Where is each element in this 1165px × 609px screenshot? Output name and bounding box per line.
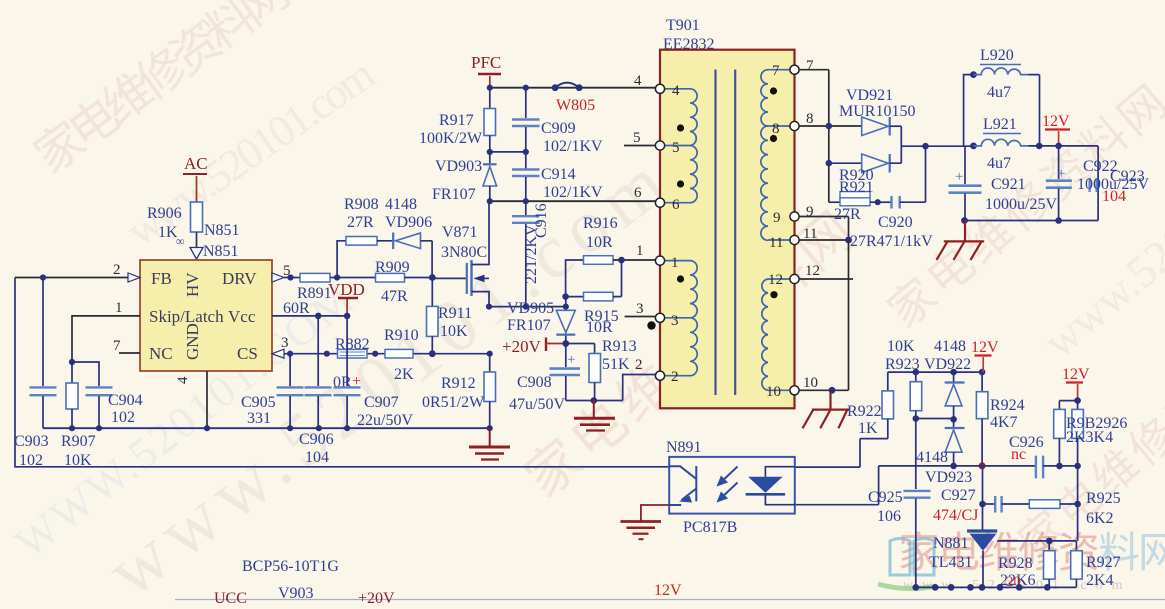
svg-text:11: 11: [769, 235, 783, 251]
svg-text:2: 2: [635, 357, 643, 373]
svg-text:C907: C907: [364, 394, 399, 411]
svg-text:27R: 27R: [347, 214, 374, 231]
wire TL431 ref: [997, 538, 1076, 545]
capacitor C920: [878, 146, 926, 231]
wire 12V rail to feedback: [888, 369, 986, 376]
ground secondary C921: [937, 221, 985, 260]
svg-text:6K2: 6K2: [1086, 510, 1114, 527]
diode VD905: [507, 297, 575, 344]
svg-text:4u7: 4u7: [987, 84, 1011, 101]
resistor R911: [427, 278, 473, 353]
svg-text:3N80C: 3N80C: [441, 244, 487, 261]
pin 9: [773, 204, 814, 226]
svg-text:N851: N851: [204, 222, 240, 239]
svg-text:2K: 2K: [394, 366, 414, 383]
wire C908 R913 to pin 2: [566, 375, 656, 404]
pin 5 DRV: [272, 263, 300, 282]
pin 8: [772, 111, 814, 137]
svg-text:NC: NC: [149, 344, 173, 363]
diode VD921 MUR10150 upper: [839, 87, 915, 136]
svg-text:Vcc: Vcc: [228, 307, 256, 326]
pin 4: [634, 73, 680, 99]
winding secondary pins 7-8: [761, 70, 790, 126]
svg-text:60R: 60R: [283, 300, 310, 317]
svg-text:+: +: [352, 373, 361, 390]
svg-text:6: 6: [672, 197, 680, 213]
svg-text:10K: 10K: [64, 452, 92, 469]
pin 11: [769, 226, 817, 251]
pin 7 NC: [113, 338, 140, 354]
diode opto LED: [746, 467, 795, 505]
svg-text:C903: C903: [14, 433, 49, 450]
resistor R912: [422, 354, 496, 429]
winding primary pins 3-2: [665, 318, 698, 376]
capacitor C909: [512, 88, 603, 155]
svg-text:3: 3: [671, 313, 679, 329]
svg-text:UCC: UCC: [214, 590, 247, 607]
svg-text:R916: R916: [583, 215, 618, 232]
svg-text:104: 104: [305, 449, 329, 466]
diode VD903: [432, 152, 497, 203]
resistor R926: [1066, 401, 1127, 466]
resistor R922: [795, 372, 894, 467]
svg-text:DRV: DRV: [222, 269, 257, 288]
resistor R891: [283, 273, 337, 317]
svg-text:HV: HV: [183, 272, 202, 297]
pin 10: [766, 375, 818, 400]
svg-text:C909: C909: [541, 120, 576, 137]
svg-text:106: 106: [877, 508, 901, 525]
diode VD921 lower: [829, 126, 974, 172]
svg-text:5: 5: [672, 140, 680, 156]
wire bottom stage rail: [175, 599, 1165, 601]
resistor R925: [1029, 490, 1120, 527]
svg-text:+20V: +20V: [358, 590, 395, 607]
svg-text:221/2KV: 221/2KV: [523, 224, 540, 284]
svg-text:C921: C921: [991, 176, 1026, 193]
resistor R915: [562, 260, 621, 336]
winding secondary pins 12-10: [762, 279, 790, 390]
svg-text:4148: 4148: [916, 449, 948, 466]
svg-text:R913: R913: [602, 338, 637, 355]
svg-text:7: 7: [806, 58, 814, 74]
svg-text:47R: 47R: [381, 288, 408, 305]
resistor R923: [885, 338, 954, 489]
capacitor C922: [1046, 146, 1118, 221]
pin 2: [635, 357, 679, 385]
svg-text:R922: R922: [847, 403, 882, 420]
svg-text:L921: L921: [983, 116, 1017, 133]
pin 2 FB: [15, 262, 140, 282]
svg-text:C925: C925: [868, 489, 903, 506]
capacitor C914: [512, 152, 603, 201]
svg-text:+: +: [567, 352, 575, 368]
svg-text:27R: 27R: [834, 206, 861, 223]
capacitor C905: [241, 354, 304, 429]
wire opto light arrows: [720, 467, 738, 500]
transistor phototransistor: [669, 466, 696, 505]
svg-text:12V: 12V: [1062, 366, 1090, 383]
svg-text:51K: 51K: [602, 356, 630, 373]
capacitor C903: [14, 274, 57, 469]
pin 3: [625, 301, 679, 330]
node VDD supply: [328, 280, 365, 316]
svg-text:R924: R924: [990, 397, 1025, 414]
op-amp N881 TL431: [929, 466, 997, 588]
node PFC: [471, 53, 501, 88]
winding primary pins 1-3: [665, 261, 698, 318]
svg-text:R906: R906: [147, 205, 182, 222]
svg-text:W805: W805: [556, 97, 595, 114]
svg-text:N891: N891: [666, 439, 702, 456]
svg-text:1K: 1K: [158, 224, 178, 241]
capacitor C904: [72, 362, 143, 428]
inductor L921: [970, 116, 1098, 172]
ground C908 R913: [574, 401, 615, 431]
svg-text:CS: CS: [237, 344, 258, 363]
svg-text:102/1KV: 102/1KV: [543, 184, 603, 201]
node 12V supply VD922: [971, 339, 999, 372]
svg-text:AC: AC: [184, 154, 208, 173]
svg-text:N851: N851: [203, 243, 239, 260]
svg-text:4: 4: [175, 376, 191, 384]
resistor R913: [566, 338, 637, 401]
svg-text:1K: 1K: [858, 420, 878, 437]
wire PFC to transformer pin 4: [487, 85, 656, 91]
node +20V supply: [502, 337, 569, 356]
svg-text:0R51/2W: 0R51/2W: [422, 394, 485, 411]
node BCP56 stage labels: [214, 558, 395, 607]
svg-text:10R: 10R: [586, 319, 613, 336]
winding primary pins 4-5: [665, 89, 698, 146]
wire Vcc: [272, 313, 350, 320]
svg-text:VDD: VDD: [328, 280, 365, 299]
svg-text:R910: R910: [384, 327, 419, 344]
svg-text:∞: ∞: [176, 234, 185, 248]
svg-text:100K/2W: 100K/2W: [419, 130, 483, 147]
capacitor C921: [949, 146, 1058, 221]
node N851 net labels: [190, 222, 240, 260]
svg-text:VD923: VD923: [925, 469, 972, 486]
svg-text:8: 8: [772, 121, 780, 137]
svg-text:10: 10: [803, 375, 818, 391]
svg-text:R911: R911: [438, 305, 472, 322]
svg-text:102/1KV: 102/1KV: [543, 138, 603, 155]
resistor R916: [566, 215, 656, 297]
diode VD906: [385, 214, 432, 274]
svg-text:TL431: TL431: [929, 554, 973, 571]
svg-text:nc: nc: [1011, 446, 1026, 463]
pin 4 GND: [175, 371, 207, 428]
svg-text:+20V: +20V: [502, 337, 542, 356]
svg-text:1: 1: [636, 243, 644, 259]
node gate junction: [429, 274, 436, 281]
pin 1 Skip/Latch: [72, 300, 140, 362]
svg-text:10K: 10K: [440, 323, 468, 340]
resistor R882: [333, 336, 370, 391]
svg-text:104: 104: [1102, 188, 1126, 205]
svg-text:5: 5: [633, 130, 641, 146]
resistor R920 R921 snubber: [829, 167, 881, 223]
transformer T901 EE2832: [660, 17, 795, 408]
svg-text:12: 12: [805, 263, 820, 279]
svg-text:1000u/25V: 1000u/25V: [985, 196, 1057, 213]
pin 1: [636, 243, 679, 271]
capacitor C908: [509, 344, 580, 414]
node R917-VD903: [487, 149, 529, 155]
op-amp N891 PC817B optocoupler: [666, 439, 795, 536]
svg-text:3: 3: [636, 301, 644, 317]
svg-text:FR107: FR107: [432, 186, 476, 203]
svg-text:10K: 10K: [887, 338, 915, 355]
svg-text:2K4: 2K4: [1086, 572, 1114, 589]
node 12V output: [1042, 113, 1070, 149]
svg-text:4148: 4148: [934, 338, 966, 355]
wire pins 7 8 to rectifier: [799, 70, 862, 203]
ground primary: [469, 428, 510, 459]
svg-text:VD921: VD921: [846, 87, 893, 104]
svg-text:C914: C914: [541, 166, 576, 183]
capacitor C926: [1009, 434, 1081, 478]
svg-text:V871: V871: [442, 224, 478, 241]
capacitor C925: [868, 489, 931, 587]
svg-text:R927: R927: [1086, 554, 1121, 571]
resistor R928: [998, 541, 1055, 590]
svg-text:47u/50V: 47u/50V: [509, 396, 565, 413]
capacitor C916: [512, 201, 550, 306]
svg-text:7: 7: [113, 338, 121, 354]
svg-text:R917: R917: [439, 112, 474, 129]
svg-text:BCP56-10T1G: BCP56-10T1G: [242, 558, 339, 575]
pin 7: [772, 58, 814, 79]
transistor V871 MOSFET: [432, 201, 489, 306]
svg-text:9: 9: [773, 210, 781, 226]
svg-text:2: 2: [671, 369, 679, 385]
svg-text:FR107: FR107: [507, 317, 551, 334]
svg-text:2: 2: [113, 262, 121, 278]
svg-text:4: 4: [634, 73, 642, 89]
svg-text:102: 102: [111, 409, 135, 426]
svg-text:FB: FB: [151, 269, 172, 288]
node 12V supply divider: [1062, 366, 1090, 404]
svg-text:4148: 4148: [385, 196, 417, 213]
svg-text:27R471/1kV: 27R471/1kV: [850, 233, 933, 250]
wire primary ground rail: [43, 425, 493, 431]
wire divider vertical: [1077, 466, 1079, 541]
svg-text:R882: R882: [335, 336, 370, 353]
winding primary pins 5-6: [665, 146, 698, 203]
diode VD923: [916, 419, 972, 486]
svg-text:3: 3: [281, 335, 289, 351]
svg-text:8: 8: [806, 111, 814, 127]
inductor L920: [964, 47, 1040, 146]
svg-text:12: 12: [768, 272, 783, 288]
wire opto cathode feedback line: [795, 466, 1036, 505]
wire R906 to U1: [196, 232, 198, 247]
svg-text:1: 1: [115, 300, 123, 316]
svg-text:22u/50V: 22u/50V: [357, 412, 413, 429]
svg-text:2K3K4: 2K3K4: [1066, 429, 1113, 446]
svg-text:7: 7: [772, 63, 780, 79]
wire pins 9 11: [799, 217, 852, 244]
svg-text:Skip/Latch: Skip/Latch: [149, 307, 224, 326]
svg-text:R923: R923: [885, 356, 920, 373]
node secondary return: [829, 387, 836, 394]
svg-text:10: 10: [766, 384, 781, 400]
resistor R9B2: [1054, 401, 1078, 466]
ground pin 10: [803, 392, 850, 428]
svg-text:VD922: VD922: [924, 356, 971, 373]
svg-text:331: 331: [247, 410, 271, 427]
wire drain line to transformer pin 6: [487, 198, 656, 204]
svg-text:R921: R921: [839, 179, 874, 196]
wire secondary feedback ground rail: [912, 584, 1076, 591]
ground opto: [621, 505, 670, 539]
svg-text:VD903: VD903: [435, 158, 482, 175]
wire FB feedback loop: [15, 278, 669, 467]
svg-text:MUR10150: MUR10150: [839, 103, 915, 120]
pin 12: [768, 263, 853, 288]
pin 6: [634, 185, 680, 213]
capacitor C907: [334, 316, 414, 429]
op-amp U1 N851 controller IC: [140, 260, 272, 371]
winding secondary pins 8-11: [761, 126, 790, 240]
diode VD922: [924, 338, 971, 423]
svg-text:6: 6: [634, 185, 642, 201]
svg-text:1: 1: [671, 255, 679, 271]
pin 5: [624, 130, 680, 156]
svg-text:R907: R907: [61, 433, 96, 450]
svg-text:VD906: VD906: [385, 214, 432, 231]
svg-text:12V: 12V: [1042, 113, 1070, 130]
svg-text:R925: R925: [1086, 490, 1121, 507]
capacitor C927: [933, 487, 1029, 524]
svg-text:R908: R908: [344, 196, 379, 213]
wire pin 11 to pin 10: [799, 240, 849, 390]
resistor R907: [61, 359, 96, 469]
svg-text:4: 4: [672, 83, 680, 99]
node 12V label bottom: [654, 582, 682, 599]
svg-text:GND: GND: [183, 323, 202, 360]
svg-text:T901: T901: [666, 17, 700, 34]
resistor R908: [337, 196, 417, 278]
node AC: [183, 154, 208, 202]
capacitor C923: [1077, 168, 1149, 205]
node DRV-R908 junction: [334, 274, 340, 280]
svg-text:C905: C905: [241, 394, 276, 411]
svg-text:C904: C904: [108, 392, 143, 409]
svg-text:10R: 10R: [586, 234, 613, 251]
svg-text:R912: R912: [441, 375, 476, 392]
svg-text:R909: R909: [375, 259, 410, 276]
svg-text:PFC: PFC: [471, 53, 501, 72]
svg-text:9: 9: [806, 204, 814, 220]
svg-text:12V: 12V: [654, 582, 682, 599]
resistor R924: [976, 372, 1024, 469]
svg-text:C927: C927: [941, 487, 976, 504]
wire MOSFET source line: [486, 304, 569, 310]
capacitor C906: [299, 316, 334, 466]
resistor R906: [147, 202, 203, 248]
svg-text:474/CJ: 474/CJ: [933, 507, 978, 524]
resistor R927: [1071, 541, 1121, 589]
svg-text:+: +: [955, 169, 963, 185]
wire secondary output bottom: [961, 146, 1098, 224]
svg-text:C908: C908: [517, 374, 552, 391]
svg-text:C920: C920: [878, 214, 913, 231]
resistor R917: [419, 88, 496, 152]
resistor R909: [337, 259, 432, 305]
svg-text:PC817B: PC817B: [683, 519, 737, 536]
jumper W805: [552, 83, 595, 114]
svg-text:N881: N881: [933, 535, 969, 552]
svg-text:R928: R928: [998, 555, 1033, 572]
svg-text:C906: C906: [299, 431, 334, 448]
pin 3 CS: [272, 335, 493, 358]
svg-text:12V: 12V: [971, 339, 999, 356]
svg-text:L920: L920: [980, 47, 1014, 64]
svg-text:102: 102: [19, 452, 43, 469]
resistor R910: [384, 327, 419, 383]
svg-text:4u7: 4u7: [987, 155, 1011, 172]
svg-text:VD905: VD905: [507, 300, 554, 317]
svg-text:4K7: 4K7: [990, 414, 1018, 431]
